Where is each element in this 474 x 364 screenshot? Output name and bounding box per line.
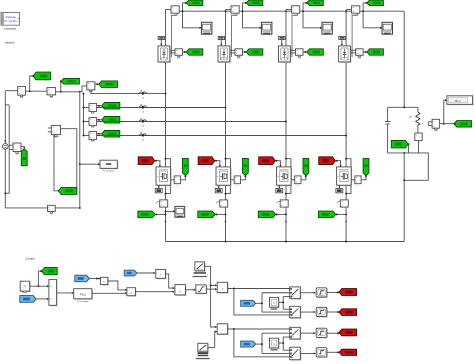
measurement block m3	[291, 179, 295, 181]
constant g1	[270, 298, 279, 308]
wire i_L1 out	[91, 90, 166, 94]
block w1	[18, 86, 26, 95]
wire drain arrow 1	[164, 221, 166, 223]
svg-text:Control: Control	[26, 257, 36, 261]
wire VM loop	[404, 153, 428, 180]
wire tag Vin elbow	[30, 76, 34, 91]
wire drain arrow 4	[345, 221, 347, 223]
wire mosfet bracket 1	[166, 159, 171, 194]
wire blue tag to mux	[36, 298, 49, 300]
wire to tag gate4	[327, 351, 339, 353]
current measurement i_L1	[87, 82, 95, 90]
wire diode sense 1	[172, 13, 178, 57]
wire VMES bottom loop	[54, 135, 59, 191]
from tag e blue	[75, 275, 90, 282]
from tag d blue	[124, 270, 137, 276]
scope iQ1	[175, 206, 185, 217]
inductor L4	[140, 134, 147, 136]
wire snubber arrow 4	[341, 40, 343, 45]
current measurement i_2	[48, 205, 56, 211]
inductor L3	[140, 120, 147, 122]
svg-text:v: v	[177, 186, 178, 188]
svg-text:Ts = 2e-05 s.: Ts = 2e-05 s.	[4, 20, 19, 23]
goto tag gate4 red	[339, 349, 357, 355]
wire mosfet bracket 2	[226, 159, 231, 194]
scope Scope1	[201, 22, 212, 34]
from tag g2 blue	[241, 341, 256, 347]
wire i_L3 out	[97, 121, 286, 123]
from tag G4	[319, 157, 336, 165]
wire snubber arrow 3	[281, 40, 283, 45]
wire input to w1	[5, 90, 17, 92]
capacitor C branch	[387, 107, 389, 121]
wire mux to PID	[57, 292, 74, 294]
PID controller	[75, 290, 93, 300]
display block	[448, 97, 474, 106]
wire repseq1 to rel1	[211, 284, 217, 286]
wire repseq2 to rel2	[208, 332, 217, 348]
goto tag Vak1	[186, 49, 203, 55]
goto tag Vak2	[246, 49, 263, 55]
goto tag Iin	[61, 79, 80, 85]
wire Vref to mux	[30, 285, 49, 287]
wire R branch bottom	[418, 141, 420, 153]
repeating sequence 2	[199, 344, 209, 353]
goto tag gate1 red	[339, 289, 357, 296]
snubber block 4	[339, 36, 345, 39]
MOSFET Q1	[157, 168, 172, 186]
wire tag Vd4	[363, 2, 366, 4]
wire g1 outer loop	[234, 289, 290, 315]
goto tag Vak4	[367, 49, 384, 55]
wire return bus bottom	[166, 241, 405, 243]
diode current measurement d4	[346, 9, 352, 11]
from tag g1 blue	[241, 300, 256, 306]
wire rel to g2a	[228, 328, 290, 330]
from tag G3	[259, 157, 276, 165]
wire scope feed 3	[303, 3, 322, 28]
current measurement iQ1	[160, 200, 168, 207]
from tag iref3	[258, 211, 275, 218]
goto tag Vd4	[367, 0, 384, 6]
goto tag i_L4	[102, 131, 120, 138]
wire to compare block	[80, 163, 100, 165]
measurement block m1	[171, 179, 175, 181]
snubber block 2	[218, 36, 224, 39]
goto tag Vd2	[246, 0, 263, 6]
wire switch g1a out	[300, 292, 315, 294]
wire w2 out	[56, 86, 87, 92]
wire load feed vertical	[403, 11, 405, 107]
wire VM1 to tag	[21, 146, 24, 149]
wire i_2 out	[55, 207, 80, 209]
wire drain arrow 2	[224, 221, 226, 223]
wire snubber arrow 1	[160, 40, 162, 45]
snubber block 1	[158, 36, 164, 39]
goto tag Vin	[33, 72, 51, 80]
wire blue to gain1	[89, 278, 100, 280]
current measurement iQ3	[280, 200, 288, 207]
DC source E1	[3, 144, 9, 150]
wire constant g2 junction	[279, 342, 284, 344]
wire mosfet bracket 4	[346, 159, 351, 194]
terminator 3	[278, 185, 280, 187]
diode current measurement d2	[226, 9, 232, 11]
goto tag Vmes up	[21, 149, 27, 166]
wire phase 4 vertical	[345, 10, 347, 242]
wire g2 outer loop	[234, 329, 290, 357]
wire to i_L4	[84, 135, 90, 137]
wire to scope iQ1	[166, 210, 175, 212]
edge block 2	[317, 308, 328, 317]
goto tag gate3 red	[339, 329, 357, 336]
saturation block	[197, 286, 207, 294]
wire tag Vd1	[183, 2, 186, 4]
terminator 4	[338, 185, 340, 187]
goto tag m4	[363, 158, 369, 175]
edge block 4	[317, 349, 328, 358]
wire blue to gain2	[137, 272, 155, 274]
wire i_L4 out	[97, 135, 347, 137]
inductor L1	[140, 92, 147, 94]
svg-text:Discrete,: Discrete,	[6, 15, 17, 19]
goto tag gate2 red	[339, 309, 357, 316]
wire repseq1 down	[205, 266, 217, 327]
terminator 1	[158, 185, 160, 187]
goto tag Vmes2	[58, 187, 76, 194]
wire VMES right down	[61, 129, 77, 191]
from tag iref2	[198, 211, 215, 218]
goto tag Vak3	[307, 49, 324, 55]
MOSFET Q3	[277, 168, 292, 186]
wire VMout out	[440, 123, 454, 125]
svg-text:Vak: Vak	[177, 57, 180, 59]
switch g1b	[291, 307, 302, 319]
voltage measurement Vak3	[290, 49, 295, 51]
voltage measurement VM1	[13, 143, 21, 152]
goto tag m1	[183, 158, 189, 175]
from tag G1	[138, 157, 155, 165]
wire to tag gate3	[327, 332, 339, 334]
svg-text:Vak: Vak	[358, 57, 361, 59]
goto tag Vd3	[307, 0, 324, 6]
wire w1-w2	[25, 90, 47, 92]
current measurement i_L4	[89, 132, 97, 140]
MOSFET Q2	[217, 168, 232, 186]
relational operator 1	[218, 283, 228, 293]
wire to display	[444, 100, 447, 124]
wire bottom left	[5, 207, 47, 209]
voltage measurement VMout	[429, 121, 433, 123]
diode current measurement d1	[166, 9, 172, 11]
wire gain2 to sum	[166, 274, 175, 288]
wire to tag gate1	[327, 291, 339, 293]
wire scope feed 1	[183, 3, 202, 28]
goto tag Vout2	[454, 121, 472, 127]
mux block	[50, 281, 58, 307]
svg-text:Vak: Vak	[298, 57, 301, 59]
svg-text:v: v	[297, 186, 298, 188]
voltage measurement Vak2	[230, 49, 235, 51]
svg-text:-K-: -K-	[103, 281, 106, 283]
wire bus tie top	[5, 104, 9, 106]
wire gate 3	[275, 161, 280, 167]
svg-text:VM: VM	[15, 154, 18, 156]
from tag iref4	[318, 211, 335, 218]
wire diode sense 4	[352, 13, 358, 57]
wire left bus B	[8, 105, 10, 193]
relational operator 2	[218, 325, 228, 335]
powergui block	[1, 13, 20, 26]
goto tag m2	[243, 158, 249, 175]
svg-text:+: +	[179, 289, 181, 293]
wire saturation to relational1	[206, 288, 217, 290]
current measurement iQ4	[340, 200, 348, 207]
wire switch g1b out	[300, 311, 315, 313]
diode D3 subsystem	[279, 47, 291, 63]
measurement block m2	[231, 179, 235, 181]
svg-text:PI: PI	[24, 285, 27, 289]
goto tag i_L3	[102, 117, 120, 124]
wire to tag gate2	[327, 311, 339, 313]
wire load bottom vertical	[403, 153, 405, 242]
wire load top edge	[388, 106, 418, 108]
wire sum to saturation	[185, 289, 195, 291]
current measurement i_L3	[89, 118, 97, 126]
svg-text:v: v	[237, 186, 238, 188]
wire to i_L2	[84, 107, 90, 109]
wire phase 3 vertical	[285, 10, 287, 242]
resistor R branch	[417, 107, 419, 112]
svg-text:380.2: 380.2	[454, 100, 461, 103]
voltage measurement VMES	[51, 126, 60, 135]
repeating sequence 1	[196, 263, 206, 272]
switch g2b	[291, 348, 302, 361]
from tag iref1	[138, 211, 155, 218]
svg-text:Vannes: Vannes	[5, 40, 15, 44]
wire i_L2 out	[97, 107, 226, 109]
scope Scope3	[322, 22, 333, 34]
goto tag m3	[303, 158, 309, 175]
current measurement iQ2	[220, 200, 228, 207]
gain K1	[101, 278, 108, 285]
sum block	[176, 286, 187, 296]
wire g2 blue junction	[256, 343, 262, 345]
load series block	[415, 133, 422, 141]
wire tag Vd3	[303, 2, 306, 4]
diode D4 subsystem	[340, 47, 352, 63]
wire junction vertical	[79, 92, 81, 208]
wire tag Iin elbow	[60, 81, 62, 92]
wire scope feed 2	[243, 3, 262, 28]
svg-text:powergui: powergui	[4, 26, 16, 30]
from tag G2	[198, 157, 215, 165]
svg-text:R: R	[410, 116, 412, 119]
wire drain arrow 3	[285, 221, 287, 223]
edge block 1	[317, 289, 328, 298]
from tag Vmes blue	[20, 296, 36, 303]
reference block Vref	[21, 282, 31, 292]
voltage measurement Vak4	[350, 49, 355, 51]
wire left bus A	[4, 91, 6, 144]
diode D1 subsystem	[159, 47, 171, 63]
wire mosfet bracket 3	[286, 159, 291, 194]
terminator 2	[218, 185, 220, 187]
wire load bottom edge	[388, 152, 419, 154]
svg-text:PI Controller: PI Controller	[77, 300, 88, 303]
goto tag Vdc	[42, 267, 58, 274]
goto tag i_L2	[102, 103, 120, 110]
wire g1 blue junction	[256, 302, 262, 304]
wire diode sense 3	[292, 13, 298, 57]
scope Scope2	[261, 22, 272, 34]
wire switch g2b out	[300, 352, 315, 354]
wire snubber arrow 2	[220, 40, 222, 45]
wire phase 2 vertical	[225, 10, 227, 242]
svg-text:To compare: To compare	[103, 170, 115, 173]
gain K2	[157, 270, 167, 279]
wire tag Vd2	[243, 2, 246, 4]
switch g2a	[291, 328, 302, 340]
block w2	[47, 88, 56, 95]
svg-text:PI(s): PI(s)	[80, 293, 86, 297]
scope Scope4	[382, 22, 393, 34]
wire gate 2	[215, 161, 220, 167]
svg-text:Vak: Vak	[237, 57, 240, 59]
wire phase 1 vertical	[165, 10, 167, 242]
goto tag i_L1	[99, 81, 118, 88]
voltage measurement Vak1	[170, 49, 175, 51]
wire iL chain vertical	[83, 94, 85, 136]
current measurement i_L2	[89, 104, 97, 112]
wire bus tie bottom	[5, 192, 9, 194]
wire gain1 to product	[108, 281, 127, 290]
edge block 3	[317, 329, 328, 338]
wire to i_L3	[84, 121, 90, 123]
measurement block m4	[351, 179, 355, 181]
wire diode sense 2	[232, 13, 238, 57]
inductor L2	[140, 106, 147, 108]
snubber block 3	[279, 36, 285, 39]
wire scope feed 4	[363, 3, 382, 28]
diode D2 subsystem	[219, 47, 231, 63]
wire rel to g1a	[228, 288, 290, 290]
svg-text:v: v	[358, 186, 359, 188]
wire output bus top	[179, 10, 404, 12]
wire switch g2a out	[300, 332, 315, 334]
MOSFET Q4	[338, 168, 353, 186]
wire PID to product	[92, 292, 127, 294]
wire gate 4	[335, 161, 340, 167]
goto tag Vout in box	[391, 140, 408, 148]
block To compare	[101, 161, 118, 169]
wire tag Vdc elbow	[38, 271, 41, 286]
goto tag Vd1	[186, 0, 203, 6]
diode current measurement d3	[286, 9, 292, 11]
switch g1a	[291, 288, 302, 300]
product block	[128, 289, 137, 297]
wire constant g1 junction	[279, 301, 284, 303]
wire gate 1	[155, 161, 160, 167]
wire product to sum	[135, 291, 174, 293]
svg-text:-K-: -K-	[159, 274, 162, 276]
constant g2	[270, 339, 279, 349]
